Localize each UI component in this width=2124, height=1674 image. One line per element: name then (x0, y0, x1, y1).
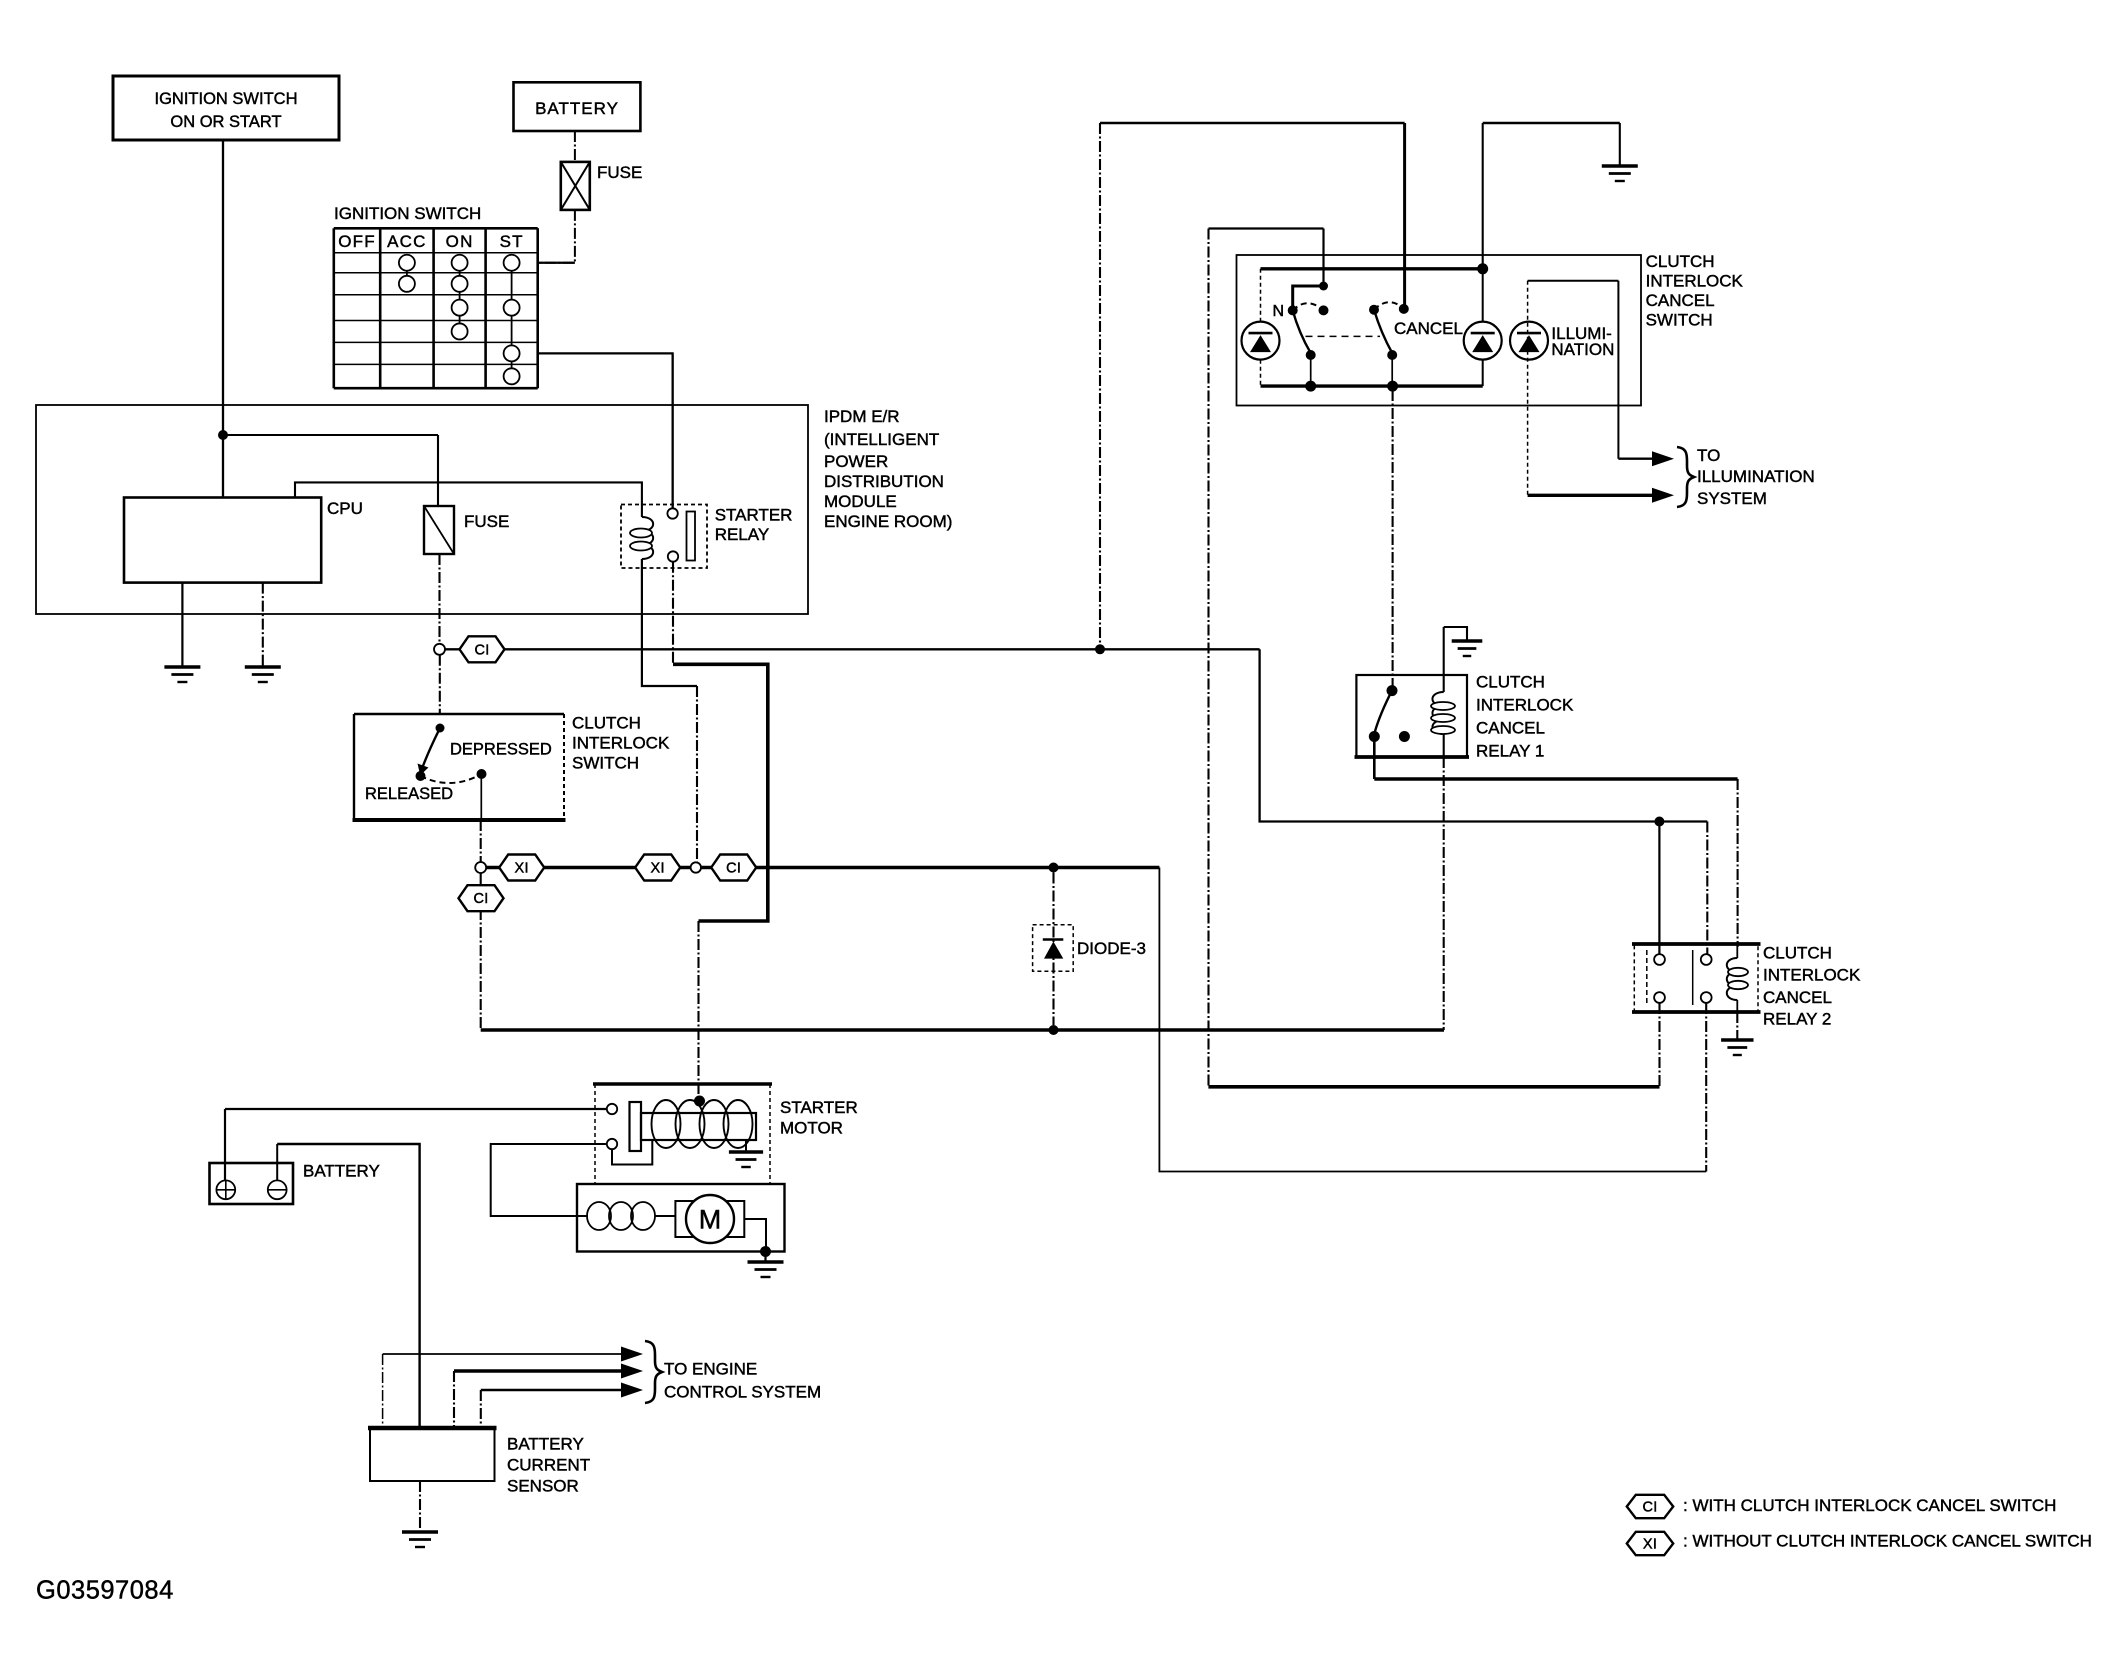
svg-text:CURRENT: CURRENT (507, 1455, 590, 1474)
svg-text:CPU: CPU (327, 499, 363, 518)
svg-text:(INTELLIGENT: (INTELLIGENT (824, 430, 939, 449)
svg-text:STARTER: STARTER (780, 1098, 858, 1117)
svg-text:FUSE: FUSE (464, 512, 509, 531)
svg-text:ST: ST (500, 232, 524, 251)
svg-text:CONTROL SYSTEM: CONTROL SYSTEM (664, 1382, 821, 1401)
svg-text:ILLUMINATION: ILLUMINATION (1697, 467, 1815, 486)
svg-text:G03597084: G03597084 (36, 1577, 174, 1605)
svg-text:RELEASED: RELEASED (365, 785, 453, 803)
svg-text:TO ENGINE: TO ENGINE (664, 1359, 757, 1378)
svg-text:IGNITION SWITCH: IGNITION SWITCH (155, 90, 298, 108)
svg-text:XI: XI (651, 861, 665, 877)
svg-text:POWER: POWER (824, 452, 888, 471)
svg-text:CLUTCH: CLUTCH (1646, 252, 1715, 271)
svg-text:MOTOR: MOTOR (780, 1119, 843, 1138)
svg-text:CLUTCH: CLUTCH (1763, 943, 1832, 962)
svg-text:CI: CI (473, 891, 488, 907)
svg-text:CANCEL: CANCEL (1476, 718, 1545, 737)
svg-text:OFF: OFF (338, 232, 376, 251)
svg-text:RELAY: RELAY (715, 525, 770, 544)
svg-text:DIODE-3: DIODE-3 (1077, 939, 1146, 958)
svg-text:BATTERY: BATTERY (535, 99, 619, 118)
svg-text:ON: ON (446, 232, 474, 251)
svg-text:DISTRIBUTION: DISTRIBUTION (824, 472, 944, 491)
svg-text:CI: CI (726, 861, 741, 877)
svg-text:TO: TO (1697, 446, 1720, 465)
svg-text:CANCEL: CANCEL (1646, 291, 1715, 310)
svg-text:SWITCH: SWITCH (1646, 311, 1713, 330)
svg-text:DEPRESSED: DEPRESSED (450, 741, 552, 759)
svg-text:XI: XI (1643, 1537, 1657, 1553)
svg-text:N: N (1272, 303, 1284, 320)
svg-text:ON OR START: ON OR START (170, 113, 281, 131)
svg-text:: WITHOUT CLUTCH INTERLOCK CAN: : WITHOUT CLUTCH INTERLOCK CANCEL SWITCH (1683, 1531, 2092, 1550)
svg-text:CI: CI (1642, 1500, 1657, 1516)
svg-text:RELAY 1: RELAY 1 (1476, 741, 1544, 760)
svg-text:CANCEL: CANCEL (1763, 988, 1832, 1007)
svg-text:MODULE: MODULE (824, 492, 897, 511)
svg-text:INTERLOCK: INTERLOCK (1763, 965, 1861, 984)
svg-text:XI: XI (515, 861, 529, 877)
svg-text:: WITH CLUTCH INTERLOCK CANCEL: : WITH CLUTCH INTERLOCK CANCEL SWITCH (1683, 1496, 2056, 1515)
svg-text:ACC: ACC (387, 232, 427, 251)
svg-text:SYSTEM: SYSTEM (1697, 489, 1767, 508)
svg-text:RELAY 2: RELAY 2 (1763, 1009, 1831, 1028)
svg-text:M: M (699, 1205, 722, 1235)
svg-text:INTERLOCK: INTERLOCK (572, 733, 670, 752)
svg-text:BATTERY: BATTERY (303, 1162, 380, 1181)
svg-text:ENGINE ROOM): ENGINE ROOM) (824, 512, 952, 531)
svg-text:BATTERY: BATTERY (507, 1434, 584, 1453)
svg-text:CLUTCH: CLUTCH (572, 713, 641, 732)
svg-text:STARTER: STARTER (715, 506, 793, 525)
svg-text:NATION: NATION (1551, 340, 1614, 359)
svg-text:IPDM E/R: IPDM E/R (824, 407, 900, 426)
svg-text:INTERLOCK: INTERLOCK (1476, 695, 1574, 714)
svg-text:SENSOR: SENSOR (507, 1476, 579, 1495)
svg-text:FUSE: FUSE (597, 163, 642, 182)
svg-text:IGNITION SWITCH: IGNITION SWITCH (334, 204, 481, 223)
svg-text:SWITCH: SWITCH (572, 753, 639, 772)
svg-text:CI: CI (474, 642, 489, 658)
svg-text:CANCEL: CANCEL (1394, 319, 1463, 338)
svg-text:INTERLOCK: INTERLOCK (1646, 272, 1744, 291)
svg-text:CLUTCH: CLUTCH (1476, 672, 1545, 691)
